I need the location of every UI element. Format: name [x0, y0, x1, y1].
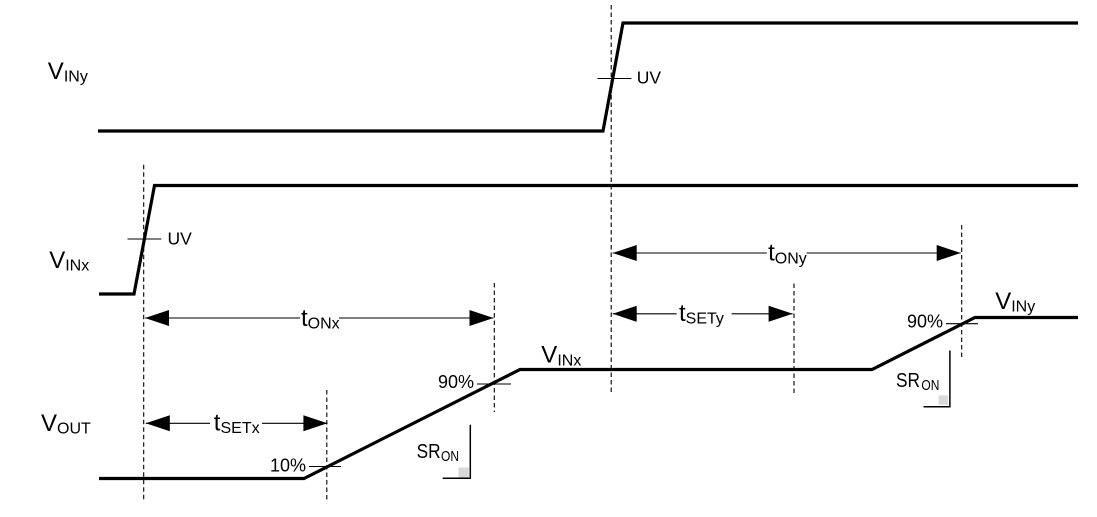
- arrowhead tONy left: [613, 245, 637, 261]
- tick UV on VINx edge: [128, 238, 162, 240]
- svg-text:90%: 90%: [438, 372, 474, 392]
- dashed line D6 at tSETy right edge: [793, 284, 795, 394]
- svg-text:UV: UV: [637, 68, 662, 88]
- arrowhead tSETy left: [613, 306, 637, 322]
- dashed line D4 at VINy UV crossing: [610, 5, 612, 394]
- arrowhead tONy right: [937, 245, 961, 261]
- svg-text:SR: SR: [896, 369, 920, 392]
- svg-text:ON: ON: [921, 377, 939, 394]
- svg-text:90%: 90%: [907, 312, 943, 332]
- SR slope symbol right: angle lines: [924, 351, 950, 407]
- svg-text:ON: ON: [441, 448, 459, 465]
- dashed line D5 at VOUT 90% (y): [961, 225, 963, 358]
- SR slope symbol right: gray square: [939, 395, 948, 404]
- waveform VOUT: [99, 318, 1078, 479]
- arrow tSETx line: [146, 422, 210, 424]
- svg-text:UV: UV: [168, 229, 193, 249]
- arrowhead tSETx right: [303, 415, 327, 431]
- waveform VINx: [99, 186, 1078, 295]
- dashed line D3 at VOUT 90% (x): [493, 283, 495, 412]
- arrowhead tONx left: [145, 310, 169, 326]
- tick UV on VINy edge: [598, 78, 632, 80]
- arrowhead tSETy right: [769, 306, 793, 322]
- tick 90% right: [946, 323, 978, 325]
- SR slope symbol bottom: gray square: [458, 468, 468, 478]
- arrowhead tONx right: [470, 310, 494, 326]
- svg-text:10%: 10%: [270, 456, 306, 476]
- dashed line D1 at VINx UV crossing: [143, 165, 145, 502]
- arrow tONy line: [613, 252, 767, 254]
- tick 10%: [309, 466, 341, 468]
- arrow tONx line: [145, 317, 300, 319]
- SR slope symbol bottom: angle lines: [443, 425, 471, 479]
- arrow tSETy line: [613, 313, 677, 315]
- tick 90% left: [477, 383, 511, 385]
- svg-text:SR: SR: [417, 440, 441, 463]
- waveform VINy: [98, 23, 1078, 131]
- dashed line D2 at VOUT 10%: [326, 390, 328, 502]
- arrowhead tSETx left: [146, 415, 170, 431]
